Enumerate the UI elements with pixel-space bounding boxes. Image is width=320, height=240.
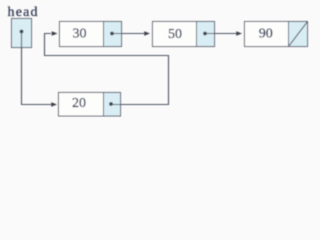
wire node 50 to node 90 xyxy=(205,31,242,36)
label head xyxy=(8,5,39,20)
wire node 20 to node 30 xyxy=(45,31,169,104)
node 50 pointer cell xyxy=(197,22,215,47)
svg-text:50: 50 xyxy=(168,27,182,42)
svg-text:30: 30 xyxy=(73,27,87,42)
svg-text:90: 90 xyxy=(259,27,273,42)
wire node 30 to node 50 xyxy=(112,31,150,36)
wire head to node 20 xyxy=(22,32,58,107)
svg-text:head: head xyxy=(8,5,39,20)
node 20 pointer cell xyxy=(104,93,121,117)
node 90 data cell xyxy=(245,22,308,47)
node 30 pointer cell xyxy=(104,22,122,47)
node 50 data cell xyxy=(153,22,215,47)
node 20 data cell xyxy=(59,93,121,117)
svg-text:20: 20 xyxy=(72,96,86,111)
node 90 pointer cell (null slash) xyxy=(289,22,308,47)
node 30 data cell xyxy=(60,22,122,47)
head pointer box xyxy=(12,19,32,48)
